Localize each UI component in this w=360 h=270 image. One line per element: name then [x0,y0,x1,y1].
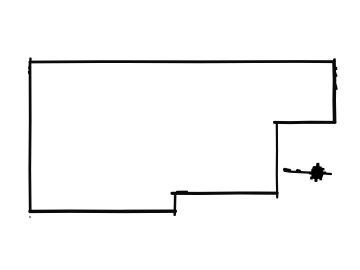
wire: left edge [28,62,31,211]
wire: pointer line through star [285,171,332,174]
star symbol (filled scribbled asterisk) [309,163,327,182]
node: nubs on left edge below top-left corner [28,67,30,74]
node: small dot below bottom-left corner [29,216,31,218]
node: pen blob at top-left corner with upward tick [29,59,32,62]
node: ink bulge on shelf near step corner [177,191,187,193]
wire: bottom edge [30,209,175,213]
wire: right edge (upper) [332,62,336,122]
star body [309,163,327,182]
wire: middle horizontal shelf [172,191,277,194]
node: pen blob at top-right corner with upward tick [333,60,336,62]
node: ragged marks on right edge [336,73,337,89]
node: nub on right edge [335,68,337,70]
wire: step vertical [173,193,176,215]
wire: notch left vertical [276,122,279,197]
wire: top edge of outline [30,60,334,63]
node: small bump on pointer line [298,169,300,173]
wire: notch top horizontal [275,121,336,124]
node: pen blob at start of pointer line [285,170,290,171]
